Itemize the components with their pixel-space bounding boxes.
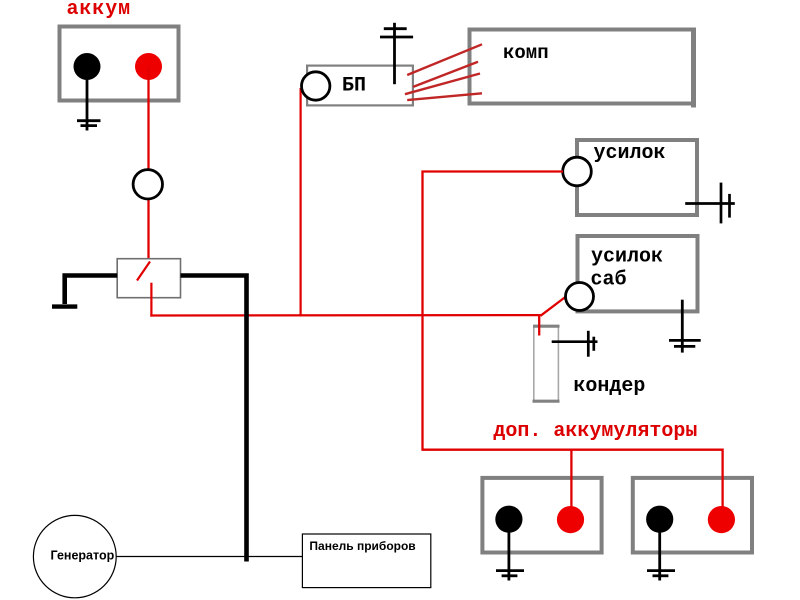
wire red: БП to main bus: [300, 88, 302, 317]
amplifier усилок input circle: [563, 157, 592, 186]
wire red: switch output down: [150, 283, 152, 317]
terminal positive (extra battery 2): [708, 506, 735, 533]
wire black: switch to panel/generator line (thick): [181, 276, 247, 562]
svg-text:кондер: кондер: [573, 375, 645, 398]
ground (extra battery 1): [496, 530, 524, 581]
svg-text:усилок: усилок: [594, 142, 666, 165]
switch box S1: [117, 259, 180, 298]
terminal negative (extra battery 2): [646, 506, 673, 533]
svg-text:доп. аккумуляторы: доп. аккумуляторы: [493, 420, 697, 443]
capacitor кондер box: [534, 326, 559, 402]
switch blade (red): [137, 262, 150, 281]
ground (chassis foot): [52, 304, 77, 308]
wire red: branch to extra battery 1: [570, 450, 572, 507]
wire black thin: generator to panel: [116, 556, 302, 558]
fuse F1 circle: [133, 170, 162, 199]
terminal negative (extra battery 1): [495, 506, 522, 533]
computer комп box: [470, 30, 694, 104]
instrument panel Панель приборов box: [302, 534, 430, 588]
wire red: bus into capacitor кондер: [538, 316, 540, 336]
БП input circle: [302, 72, 330, 100]
power supply БП box: [307, 66, 413, 106]
svg-text:аккум: аккум: [67, 0, 132, 21]
terminal positive (extra battery 1): [557, 506, 584, 533]
wire red: аккум + to switch through fuse: [147, 67, 149, 261]
ground (усилок саб, below): [669, 300, 701, 353]
ground (above БП, inverted): [380, 23, 413, 84]
ground (кондер, rotated right): [552, 331, 598, 357]
усилок саб input circle: [566, 283, 594, 311]
ground (усилок, rotated right): [685, 183, 735, 224]
ground (аккум negative): [77, 76, 101, 131]
wires red: БП to комп fan lines: [405, 44, 482, 100]
wire red: main horizontal bus: [150, 314, 541, 317]
battery аккум box: [60, 27, 179, 101]
wire red: bus to amplifiers and extra batteries: [423, 172, 723, 508]
svg-text:усилок: усилок: [591, 246, 663, 269]
generator Генератор circle: [33, 515, 116, 597]
svg-text:комп: комп: [503, 42, 549, 64]
wire black: switch to chassis ground (left): [65, 276, 118, 305]
svg-text:БП: БП: [342, 75, 366, 98]
svg-text:саб: саб: [591, 269, 627, 292]
terminal positive (аккум): [135, 53, 162, 80]
extra battery 1 box: [482, 478, 601, 553]
svg-text:Генератор: Генератор: [51, 549, 115, 563]
amplifier усилок box: [577, 140, 697, 215]
sub amplifier усилок саб box: [578, 236, 698, 311]
wire red: bus diagonal to усилок саб: [541, 297, 567, 316]
terminal negative (аккум): [74, 53, 101, 80]
ground (extra battery 2): [647, 530, 675, 581]
svg-text:Панель приборов: Панель приборов: [309, 539, 415, 553]
extra battery 2 box: [633, 478, 752, 553]
